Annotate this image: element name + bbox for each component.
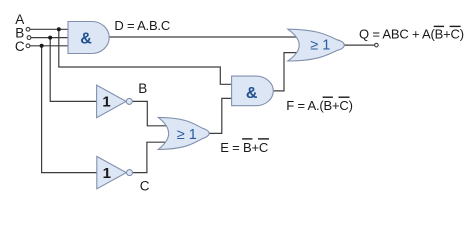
overbar on C in E label bbox=[258, 138, 269, 139]
wire Q output bbox=[344, 44, 375, 46]
svg-text:F = A.(B+C): F = A.(B+C) bbox=[286, 98, 352, 113]
AND gate U5 (F) bbox=[232, 76, 274, 106]
junction dot C bbox=[40, 44, 44, 48]
OR gate U4 (E) bbox=[158, 117, 209, 149]
wire F to OR gate Q bbox=[273, 53, 298, 91]
wire B branch to NOT gate bbox=[50, 38, 98, 102]
wire NOT-B output to OR gate bbox=[132, 101, 167, 125]
overbar on C in F label bbox=[339, 97, 350, 98]
overbar on B in E label bbox=[242, 138, 252, 139]
junction dot B bbox=[48, 36, 52, 40]
wire C branch to NOT gate bbox=[42, 46, 98, 173]
wire A bbox=[30, 28, 70, 30]
svg-text:≥ 1: ≥ 1 bbox=[310, 38, 330, 54]
svg-text:&: & bbox=[246, 85, 258, 102]
svg-text:&: & bbox=[80, 30, 92, 47]
overbar on B in Q label bbox=[434, 26, 444, 27]
svg-text:1: 1 bbox=[103, 165, 111, 182]
svg-text:B: B bbox=[138, 81, 147, 96]
svg-text:Q = ABC + A(B+C): Q = ABC + A(B+C) bbox=[359, 27, 464, 42]
input terminal A bbox=[26, 27, 30, 31]
wire D output bbox=[107, 36, 298, 38]
overbar on B in F label bbox=[323, 97, 333, 98]
input terminal B bbox=[27, 36, 31, 40]
OR gate U6 (Q) bbox=[288, 29, 345, 61]
svg-text:1: 1 bbox=[102, 94, 110, 111]
junction dot A bbox=[57, 27, 61, 31]
wire NOT-C output to OR gate bbox=[133, 142, 168, 172]
output terminal Q bbox=[375, 43, 379, 47]
svg-text:E = B+C: E = B+C bbox=[220, 140, 268, 155]
svg-text:D = A.B.C: D = A.B.C bbox=[114, 18, 170, 33]
svg-text:≥ 1: ≥ 1 bbox=[177, 127, 197, 143]
overbar on C in Q label bbox=[450, 26, 461, 27]
svg-text:C: C bbox=[15, 39, 25, 54]
input terminal C bbox=[26, 44, 30, 48]
NOT gate U2 (B input) bbox=[97, 85, 127, 118]
wire C bbox=[30, 45, 70, 47]
wire A branch to AND gate F bbox=[59, 29, 233, 84]
AND gate U1 (D = A.B.C) bbox=[68, 22, 109, 54]
svg-text:C: C bbox=[140, 179, 150, 194]
wire B bbox=[31, 37, 70, 39]
NOT gate U3 bubble bbox=[127, 170, 133, 176]
wire E to AND gate F bbox=[209, 98, 233, 133]
NOT gate U3 (C input) bbox=[97, 156, 127, 188]
NOT gate U2 bubble bbox=[126, 98, 132, 104]
